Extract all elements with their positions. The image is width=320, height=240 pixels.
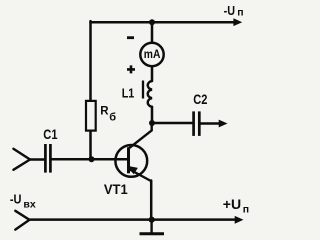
inductor L1 coil xyxy=(148,81,152,107)
svg-text:б: б xyxy=(109,112,116,124)
wire top rail xyxy=(91,21,237,24)
inductor L1 core line xyxy=(142,81,144,99)
wire mA meter top lead xyxy=(151,22,154,43)
arrow C2 output (filled) xyxy=(219,120,228,128)
node junction top rail / meter xyxy=(149,19,155,25)
svg-text:C1: C1 xyxy=(43,126,57,142)
svg-text:п: п xyxy=(243,204,249,216)
wire left vertical from top rail to resistor xyxy=(89,21,92,100)
transistor VT1 base bar xyxy=(127,147,130,173)
wire resistor bottom to base node xyxy=(89,132,92,160)
svg-text:-U: -U xyxy=(10,193,22,207)
svg-text:+U: +U xyxy=(223,197,241,212)
ground stem xyxy=(150,220,152,234)
svg-text:-U: -U xyxy=(224,3,235,18)
wire collector node to C2 xyxy=(152,122,192,125)
svg-text:вх: вх xyxy=(23,199,36,211)
svg-text:VT1: VT1 xyxy=(104,181,128,197)
capacitor C1 xyxy=(45,144,50,173)
arrow -Up (top right, filled) xyxy=(233,18,242,26)
capacitor C2 xyxy=(194,111,200,135)
node junction base xyxy=(89,156,95,162)
svg-text:mA: mA xyxy=(144,49,161,61)
node junction collector xyxy=(149,120,155,126)
ground bar xyxy=(140,232,165,235)
milliammeter mA xyxy=(140,43,163,66)
wire coil bottom to collector node xyxy=(151,107,154,123)
svg-text:п: п xyxy=(237,7,243,19)
svg-text:L1: L1 xyxy=(122,86,135,100)
arrow input mid-left (open) xyxy=(13,149,30,170)
meter minus polarity xyxy=(127,36,134,39)
meter plus polarity xyxy=(127,65,135,73)
wire mA meter bottom lead to coil xyxy=(151,66,154,81)
wire base node to transistor base xyxy=(52,158,128,161)
transistor VT1 collector lead xyxy=(129,123,152,149)
wire C2 to output arrow xyxy=(201,122,220,125)
wire input arrow stub to C1 xyxy=(30,158,44,161)
svg-text:C2: C2 xyxy=(193,91,207,107)
arrow input bottom-left (open) xyxy=(15,211,29,230)
transistor VT1 emitter arrow (PNP) xyxy=(127,166,138,175)
node junction emitter / bottom rail xyxy=(149,217,155,223)
svg-text:R: R xyxy=(100,106,109,118)
wire emitter vertical to bottom rail xyxy=(150,181,153,220)
transistor VT1 emitter lead xyxy=(129,169,151,181)
transistor VT1 body xyxy=(115,145,147,177)
arrow +Up (bottom right, filled) xyxy=(235,216,244,224)
wire bottom rail xyxy=(30,218,236,221)
resistor Rb xyxy=(86,101,96,131)
